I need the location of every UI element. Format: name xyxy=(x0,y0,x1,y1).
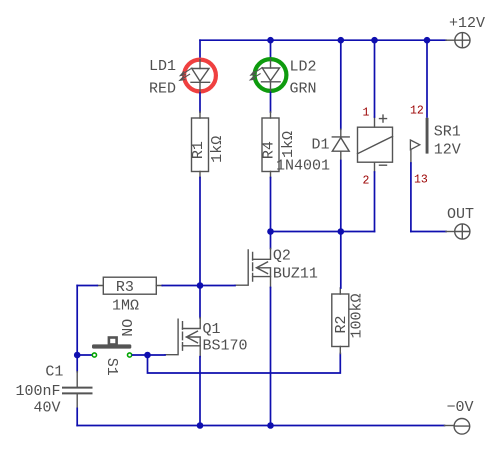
LED LD1 xyxy=(180,60,216,92)
svg-text:1kΩ: 1kΩ xyxy=(280,131,297,158)
resistor R4 xyxy=(262,112,279,178)
node junction gate (200,285.5) xyxy=(197,282,204,289)
wire R1 to gate node xyxy=(199,178,201,286)
svg-text:R3: R3 xyxy=(116,279,134,296)
wire LD1 top drop xyxy=(199,40,201,58)
node junction bottom Q2 xyxy=(267,422,274,429)
node junction left rail / S1 xyxy=(74,352,81,359)
switch S1 xyxy=(92,338,132,358)
resistor R3 xyxy=(97,277,162,294)
svg-text:−0V: −0V xyxy=(447,399,474,416)
wire SR1 to OUT xyxy=(411,231,446,233)
terminal -0V xyxy=(445,419,470,435)
svg-text:BS170: BS170 xyxy=(203,337,248,354)
wire latch node to Q1 gate xyxy=(148,354,166,356)
LED LD2 xyxy=(250,40,286,91)
wire gate node to Q2 gate xyxy=(200,285,235,287)
node junction bottom Q1 xyxy=(197,422,204,429)
wire C1 to bottom rail xyxy=(76,408,78,425)
svg-text:RED: RED xyxy=(149,80,176,97)
node junction D1 top xyxy=(338,37,345,44)
wire R3 right to gate node xyxy=(162,285,200,287)
node junction 231 D1 xyxy=(338,228,345,235)
diode D1 1N4001 xyxy=(332,40,349,231)
svg-text:GRN: GRN xyxy=(290,80,317,97)
transistor Q2 BUZ11 xyxy=(235,249,271,288)
svg-text:S1: S1 xyxy=(103,358,120,376)
svg-text:D1: D1 xyxy=(312,137,330,154)
wire node231 horizontal xyxy=(271,231,375,233)
wire latch node down and right to R2 xyxy=(148,354,341,374)
svg-text:1N4001: 1N4001 xyxy=(276,158,330,175)
svg-text:SR1: SR1 xyxy=(434,124,461,141)
wire gate node down to Q1 drain xyxy=(199,286,201,318)
left rail wire (R3 to C1) xyxy=(76,286,78,372)
wire relay pin1 xyxy=(374,40,376,117)
svg-text:1MΩ: 1MΩ xyxy=(112,297,139,314)
node junction 231 left xyxy=(267,228,274,235)
resistor R1 xyxy=(192,112,209,178)
terminal OUT xyxy=(446,224,470,239)
node junction latch (147.5,355) xyxy=(144,352,151,359)
wire node231 to R2 top xyxy=(340,232,342,289)
resistor R2 xyxy=(332,288,349,354)
relay contact SR1 xyxy=(410,40,428,231)
svg-text:2: 2 xyxy=(363,175,370,188)
wire LD1 to R1 xyxy=(199,93,201,112)
svg-text:1kΩ: 1kΩ xyxy=(209,136,226,163)
wire S1 to latch node xyxy=(133,354,148,356)
svg-text:12: 12 xyxy=(410,105,424,118)
wire relay pin2 to node231 xyxy=(374,172,376,232)
svg-text:12V: 12V xyxy=(434,142,461,159)
svg-text:13: 13 xyxy=(414,174,428,187)
svg-text:BUZ11: BUZ11 xyxy=(273,266,318,283)
wire Q1 source to bottom rail xyxy=(199,357,201,426)
node junction SR1 pin12 top xyxy=(424,37,431,44)
wire left rail to S1 xyxy=(77,354,91,356)
svg-text:Q2: Q2 xyxy=(273,248,291,265)
svg-text:C1: C1 xyxy=(45,363,63,380)
svg-text:100nF: 100nF xyxy=(15,383,60,400)
node junction relay pin1 top xyxy=(371,37,378,44)
svg-text:+12V: +12V xyxy=(449,15,485,32)
svg-text:100kΩ: 100kΩ xyxy=(349,293,366,338)
wire node231 to Q2 drain xyxy=(270,232,272,249)
svg-text:R1: R1 xyxy=(190,141,207,159)
svg-text:40V: 40V xyxy=(33,400,60,417)
svg-text:R2: R2 xyxy=(333,315,350,333)
svg-text:Q1: Q1 xyxy=(203,321,221,338)
svg-text:LD1: LD1 xyxy=(149,58,176,75)
svg-text:OUT: OUT xyxy=(447,206,474,223)
relay coil K1 xyxy=(358,115,393,172)
node junction LD2 top xyxy=(267,37,274,44)
wire R4 to node231 xyxy=(270,178,272,232)
svg-text:1: 1 xyxy=(363,107,370,120)
capacitor C1 xyxy=(63,372,92,409)
svg-text:R4: R4 xyxy=(261,141,278,159)
svg-text:ON: ON xyxy=(117,319,134,337)
transistor Q1 BS170 xyxy=(165,318,200,357)
wire +12V top rail xyxy=(200,39,446,41)
terminal +12V xyxy=(446,33,470,48)
wire R3 left to left rail xyxy=(77,285,97,287)
wire bottom rail xyxy=(77,425,444,427)
wire Q2 source to bottom rail xyxy=(270,288,272,426)
svg-text:LD2: LD2 xyxy=(290,59,317,76)
wire LD2 to R4 xyxy=(270,93,272,113)
